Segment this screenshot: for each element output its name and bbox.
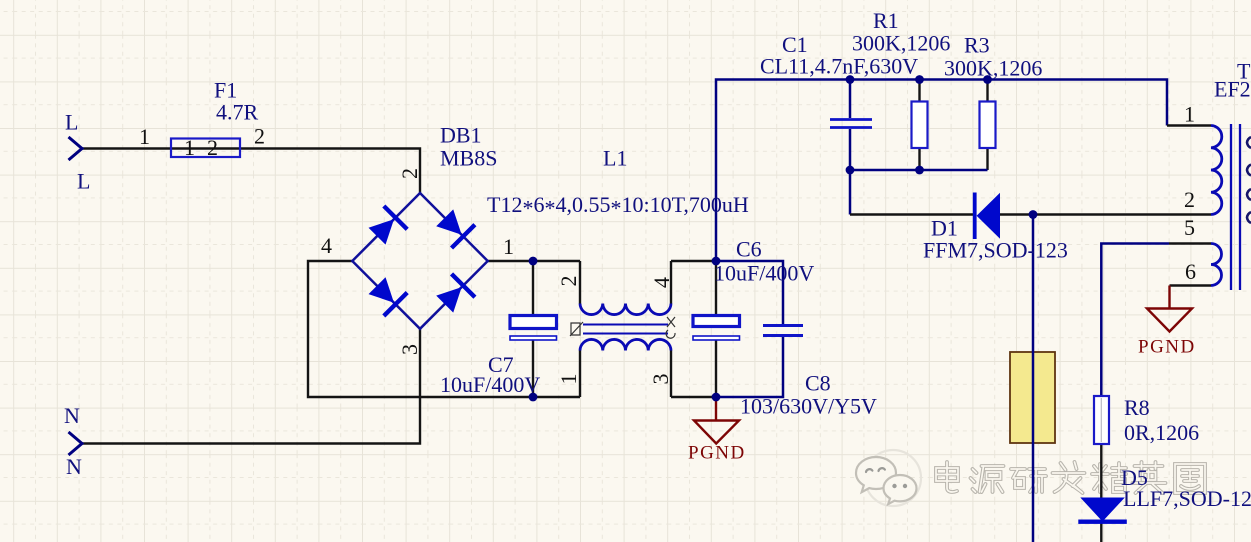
power ground PGND (transformer pin6) xyxy=(1147,286,1192,332)
wechat logo small bubble xyxy=(884,475,917,504)
wire R8 to D5 xyxy=(1100,444,1102,498)
fuse F1 body xyxy=(171,139,240,158)
bridge DB1 diamond xyxy=(352,193,487,329)
svg-text:R3: R3 xyxy=(964,33,990,58)
svg-text:300K,1206: 300K,1206 xyxy=(852,31,950,56)
node C1 top xyxy=(846,75,855,84)
svg-text:103/630V/Y5V: 103/630V/Y5V xyxy=(740,394,877,419)
inductor L1 core end marks xyxy=(570,322,583,336)
svg-text:6: 6 xyxy=(1185,259,1196,284)
svg-text:10uF/400V: 10uF/400V xyxy=(440,372,540,397)
svg-text:EF25: EF25 xyxy=(1214,77,1251,102)
wire D1 cathode to transformer pin2 xyxy=(1000,213,1211,215)
power ground PGND (C6 branch) xyxy=(694,397,739,444)
wechat logo big bubble xyxy=(856,457,896,492)
wechat logo ring xyxy=(865,450,921,506)
svg-text:10uF/400V: 10uF/400V xyxy=(714,261,814,286)
watermark hanzi 1 dian xyxy=(936,462,958,492)
svg-text:1: 1 xyxy=(184,135,195,160)
node C6 top xyxy=(712,257,721,266)
inductor L1 bottom winding xyxy=(580,339,671,350)
node R1 top xyxy=(915,75,924,84)
wire transformer pin1 stub xyxy=(1167,124,1211,126)
wire L input run xyxy=(82,149,420,194)
watermark hanzi 5 jing xyxy=(1092,463,1126,492)
resistor R3 body xyxy=(980,102,996,149)
transformer T secondary winding clipped arcs xyxy=(1247,137,1251,223)
svg-text:4: 4 xyxy=(649,277,674,288)
port N xyxy=(69,432,83,455)
wire R3 stubs xyxy=(986,80,988,171)
transformer T primary winding xyxy=(1211,126,1222,215)
wire N input run xyxy=(82,329,420,444)
node C6 bottom xyxy=(712,393,721,402)
watermark hanzi 7 quan xyxy=(1175,464,1205,493)
wire C8 bottom to node xyxy=(716,336,783,397)
wire transformer pin5 stub xyxy=(1169,242,1211,244)
svg-text:1: 1 xyxy=(503,234,514,259)
svg-text:C8: C8 xyxy=(805,371,831,396)
node C7 bottom xyxy=(529,393,538,402)
bridge DB1 diode top-left xyxy=(365,204,408,247)
svg-text:2: 2 xyxy=(397,168,422,179)
svg-text:4: 4 xyxy=(321,233,332,258)
capacitor C1 plates xyxy=(830,120,872,128)
wire bridge pin1 to L1 pin2 xyxy=(488,260,580,262)
node C1 bottom xyxy=(846,166,855,175)
bridge DB1 diode bottom-left xyxy=(365,274,408,317)
wire D1 anode side xyxy=(850,213,973,215)
wire C1 stubs xyxy=(849,80,852,171)
wire C6 node up and top rail to transformer pin1 xyxy=(716,80,1167,262)
transformer T aux winding xyxy=(1211,244,1222,286)
svg-text:C6: C6 xyxy=(736,237,762,262)
wire pin5 to R8 column xyxy=(1101,244,1169,397)
capacitor C8 plates xyxy=(763,326,803,336)
svg-text:MB8S: MB8S xyxy=(440,146,497,171)
bridge DB1 diode top-right xyxy=(433,206,476,249)
node bridge out + / C7 top xyxy=(529,257,538,266)
watermark hanzi 6 ying xyxy=(1133,462,1166,493)
watermark hanzi 3 yan xyxy=(1011,469,1046,492)
svg-text:0R,1206: 0R,1206 xyxy=(1124,420,1199,445)
svg-text:3: 3 xyxy=(397,344,422,355)
svg-text:300K,1206: 300K,1206 xyxy=(944,56,1042,81)
svg-text:L: L xyxy=(77,169,90,194)
svg-text:PGND: PGND xyxy=(1138,337,1196,358)
svg-text:R8: R8 xyxy=(1124,395,1150,420)
svg-text:LLF7,SOD-123: LLF7,SOD-123 xyxy=(1123,486,1251,511)
svg-text:1: 1 xyxy=(556,374,581,385)
wire R1 stubs xyxy=(918,80,920,171)
svg-text:L: L xyxy=(65,110,78,135)
svg-text:T12*6*4,0.55*10:10T,700uH: T12*6*4,0.55*10:10T,700uH xyxy=(487,192,749,221)
svg-text:N: N xyxy=(66,454,82,479)
node R1 bottom xyxy=(915,166,924,175)
svg-text:4.7R: 4.7R xyxy=(216,100,259,125)
resistor R1 body xyxy=(912,102,928,149)
resistor R8 body xyxy=(1094,396,1109,444)
svg-text:3: 3 xyxy=(648,374,673,385)
wire C6 stubs xyxy=(715,261,717,397)
transformer T core lines xyxy=(1231,124,1240,290)
WATERMARK xyxy=(856,450,1205,506)
svg-text:2: 2 xyxy=(556,276,581,287)
junction dots xyxy=(529,75,1038,401)
svg-text:L1: L1 xyxy=(603,146,627,171)
svg-text:N: N xyxy=(64,403,80,428)
svg-text:CL11,4.7nF,630V: CL11,4.7nF,630V xyxy=(760,54,918,79)
inductor L1 top winding xyxy=(580,304,671,315)
svg-text:5: 5 xyxy=(1184,215,1195,240)
inductor L1 core lines xyxy=(583,325,668,334)
svg-text:DB1: DB1 xyxy=(440,123,482,148)
wire L1 pin3 to C6 bottom node xyxy=(671,396,716,398)
svg-text:1: 1 xyxy=(1184,102,1195,127)
svg-text:2: 2 xyxy=(1184,187,1195,212)
svg-text:PGND: PGND xyxy=(688,443,746,464)
svg-text:2: 2 xyxy=(207,135,218,160)
wire RC snubber bottom rail xyxy=(850,169,988,172)
wire node to bottom through yellow box xyxy=(1032,215,1035,542)
diode D5 xyxy=(1080,498,1125,522)
svg-text:R1: R1 xyxy=(873,8,899,33)
wire bridge pin4 to bottom rail xyxy=(308,261,580,397)
wire C6 node to C8 top xyxy=(716,261,783,325)
wire transformer pin6 stub xyxy=(1170,284,1212,286)
node R3 top xyxy=(983,75,992,84)
component F? highlight yellow box xyxy=(1010,352,1055,443)
watermark hanzi 4 fa xyxy=(1053,462,1085,493)
svg-text:2: 2 xyxy=(254,124,265,149)
diode D1 xyxy=(973,193,977,240)
capacitor C7 plates xyxy=(510,316,557,329)
wire D5 cathode down xyxy=(1100,524,1102,542)
svg-text:1: 1 xyxy=(139,124,150,149)
bridge DB1 diode bottom-right xyxy=(433,272,476,315)
capacitor C6 plates xyxy=(693,316,740,327)
wire snubber node down to D1 row xyxy=(849,170,852,215)
wire C7 stubs xyxy=(532,261,534,397)
watermark hanzi 2 yuan xyxy=(971,466,1004,492)
wire L1 legs xyxy=(580,261,671,397)
svg-text:FFM7,SOD-123: FFM7,SOD-123 xyxy=(923,238,1068,263)
node D1 out xyxy=(1029,210,1038,219)
wire L1 pin4 to C6 node xyxy=(671,260,716,262)
port L xyxy=(69,137,83,160)
